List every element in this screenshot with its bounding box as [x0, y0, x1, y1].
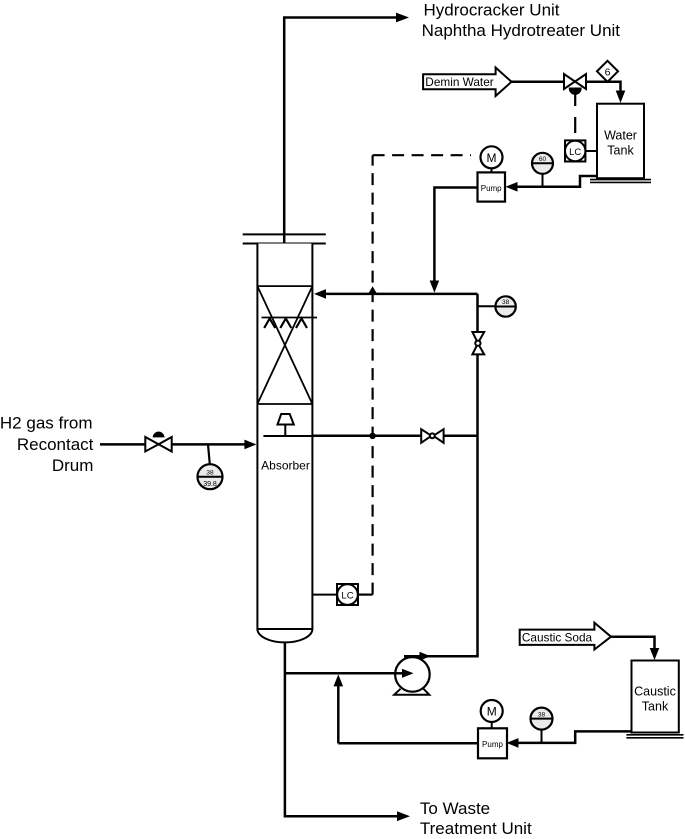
- VALVES: [145, 74, 586, 452]
- wire pump P2b discharge to caustic riser: [338, 742, 478, 745]
- svg-text:Hydrocracker Unit: Hydrocracker Unit: [424, 0, 560, 19]
- svg-text:Absorber: Absorber: [261, 459, 310, 473]
- svg-text:Pump: Pump: [482, 740, 503, 749]
- PIPES-MAIN: [100, 18, 655, 817]
- wire demin water line: [511, 82, 621, 91]
- controller LC1 water tank: [585, 150, 597, 152]
- pump P2 centrifugal: [394, 689, 429, 695]
- motor M1: [481, 146, 503, 168]
- arrow water into absorber inlet header: [430, 281, 440, 293]
- wire dashed signal to motor M1: [373, 154, 471, 156]
- wire caustic soda flag line into tank: [611, 637, 655, 649]
- node junction dot on tray line: [369, 433, 375, 439]
- water tank base: [590, 180, 651, 183]
- wire mid tray line to riser: [312, 435, 477, 438]
- chimney riser symbol: [278, 414, 294, 425]
- svg-text:38: 38: [206, 469, 214, 476]
- arrow signal up on dashed LC line: [368, 286, 377, 294]
- absorber shell: [257, 244, 312, 643]
- valve CV1 demin water control valve: [564, 74, 575, 89]
- caustic tank base: [626, 735, 683, 738]
- caustic tank: [632, 661, 679, 733]
- svg-text:Water: Water: [604, 129, 637, 143]
- arrow to waste treatment: [397, 811, 410, 821]
- valve V3 vertical valve on riser: [472, 332, 484, 343]
- pump P2b box: [478, 728, 507, 758]
- arrow pump P2 suction into pump: [402, 669, 414, 678]
- DASHED SIGNALS: [358, 90, 575, 595]
- spray nozzle 2: [280, 319, 291, 329]
- svg-text:Naphtha Hydrotreater Unit: Naphtha Hydrotreater Unit: [422, 21, 621, 40]
- spray nozzle 3: [296, 319, 307, 329]
- svg-text:H2 gas from: H2 gas from: [0, 414, 93, 433]
- gauge PI-38a: [495, 296, 515, 316]
- pump P1 box: [478, 172, 506, 201]
- arrow to hydrocracker unit: [396, 13, 409, 23]
- FLAGS: [423, 68, 611, 650]
- absorber tray line: [263, 435, 312, 437]
- arrow into pump P2b: [507, 738, 519, 748]
- flag Demin Water: [423, 68, 511, 97]
- spray nozzle 1: [264, 319, 275, 329]
- wire caustic tank outlet to pump P2b: [517, 731, 632, 743]
- svg-text:38: 38: [502, 299, 510, 306]
- wire pump P1 discharge down to absorber inlet: [434, 188, 477, 282]
- absorber flange lines: [243, 234, 326, 243]
- valve V2 H2 feed valve: [145, 437, 158, 452]
- wire H2 feed line: [100, 443, 246, 446]
- wire pump P2 suction line: [285, 672, 404, 675]
- absorber distributor header: [262, 317, 318, 319]
- wire water tank outlet to pump P1: [516, 176, 597, 187]
- svg-text:Recontact: Recontact: [17, 435, 94, 454]
- wire solid LC2 connector: [358, 593, 373, 595]
- svg-text:Demin Water: Demin Water: [425, 75, 493, 89]
- arrow into water tank: [616, 91, 626, 104]
- svg-text:Pump: Pump: [481, 184, 502, 193]
- wire caustic injection riser: [337, 685, 340, 743]
- wire dashed signal LC2 up: [372, 155, 374, 594]
- water tank: [597, 104, 644, 179]
- GAUGES: [198, 153, 554, 743]
- diamond tag 6: [597, 61, 618, 82]
- arrow into absorber top: [314, 289, 326, 299]
- wire overhead line from absorber top to hydrocracker arrow: [283, 18, 399, 246]
- gauge PI-38b: [541, 730, 543, 743]
- motor M2: [481, 700, 503, 722]
- controller LC2 absorber level: [312, 594, 337, 596]
- svg-text:LC: LC: [341, 590, 353, 601]
- svg-text:Tank: Tank: [642, 700, 669, 714]
- svg-text:LC: LC: [569, 147, 581, 158]
- ABSORBER COLUMN: [243, 234, 326, 642]
- wire absorber top inlet header: [325, 293, 478, 296]
- gauge PI-38-39.8 on H2 line: [208, 444, 210, 464]
- svg-text:To Waste: To Waste: [420, 799, 490, 818]
- wire right riser from pump P2 to absorber inlet: [404, 294, 478, 656]
- svg-text:Tank: Tank: [607, 144, 634, 158]
- svg-text:38: 38: [538, 711, 546, 718]
- arrow into caustic tank: [650, 648, 660, 660]
- suction arrow inside pump P2: [402, 669, 414, 678]
- wire stub to gauge PI-38a: [478, 305, 496, 307]
- svg-text:Caustic: Caustic: [634, 685, 676, 699]
- svg-text:6: 6: [605, 67, 611, 79]
- gauge PI-60: [542, 174, 544, 186]
- wire dashed stem valve CV1 to LC1: [574, 90, 576, 140]
- svg-text:39.8: 39.8: [203, 481, 217, 488]
- svg-text:60: 60: [539, 156, 547, 163]
- ARROWHEADS: [244, 13, 659, 822]
- TANKS: [590, 104, 684, 738]
- absorber packing bed X: [257, 286, 312, 404]
- flag Caustic Soda: [520, 623, 611, 650]
- svg-text:M: M: [487, 151, 497, 165]
- svg-text:M: M: [487, 705, 497, 719]
- arrow into pump P1: [506, 182, 518, 192]
- arrow caustic into suction line: [334, 674, 344, 686]
- PUMPS: [394, 146, 507, 758]
- arrow pump P2 discharge direction: [420, 652, 431, 661]
- svg-text:Caustic Soda: Caustic Soda: [522, 631, 593, 645]
- svg-text:Drum: Drum: [52, 456, 94, 475]
- arrow H2 feed into absorber: [244, 440, 256, 450]
- wire absorber bottoms down to waste: [284, 642, 400, 817]
- valve V4 on tray line: [421, 429, 431, 443]
- svg-text:Treatment Unit: Treatment Unit: [420, 819, 532, 838]
- LEVEL CONTROLLERS: [312, 140, 597, 605]
